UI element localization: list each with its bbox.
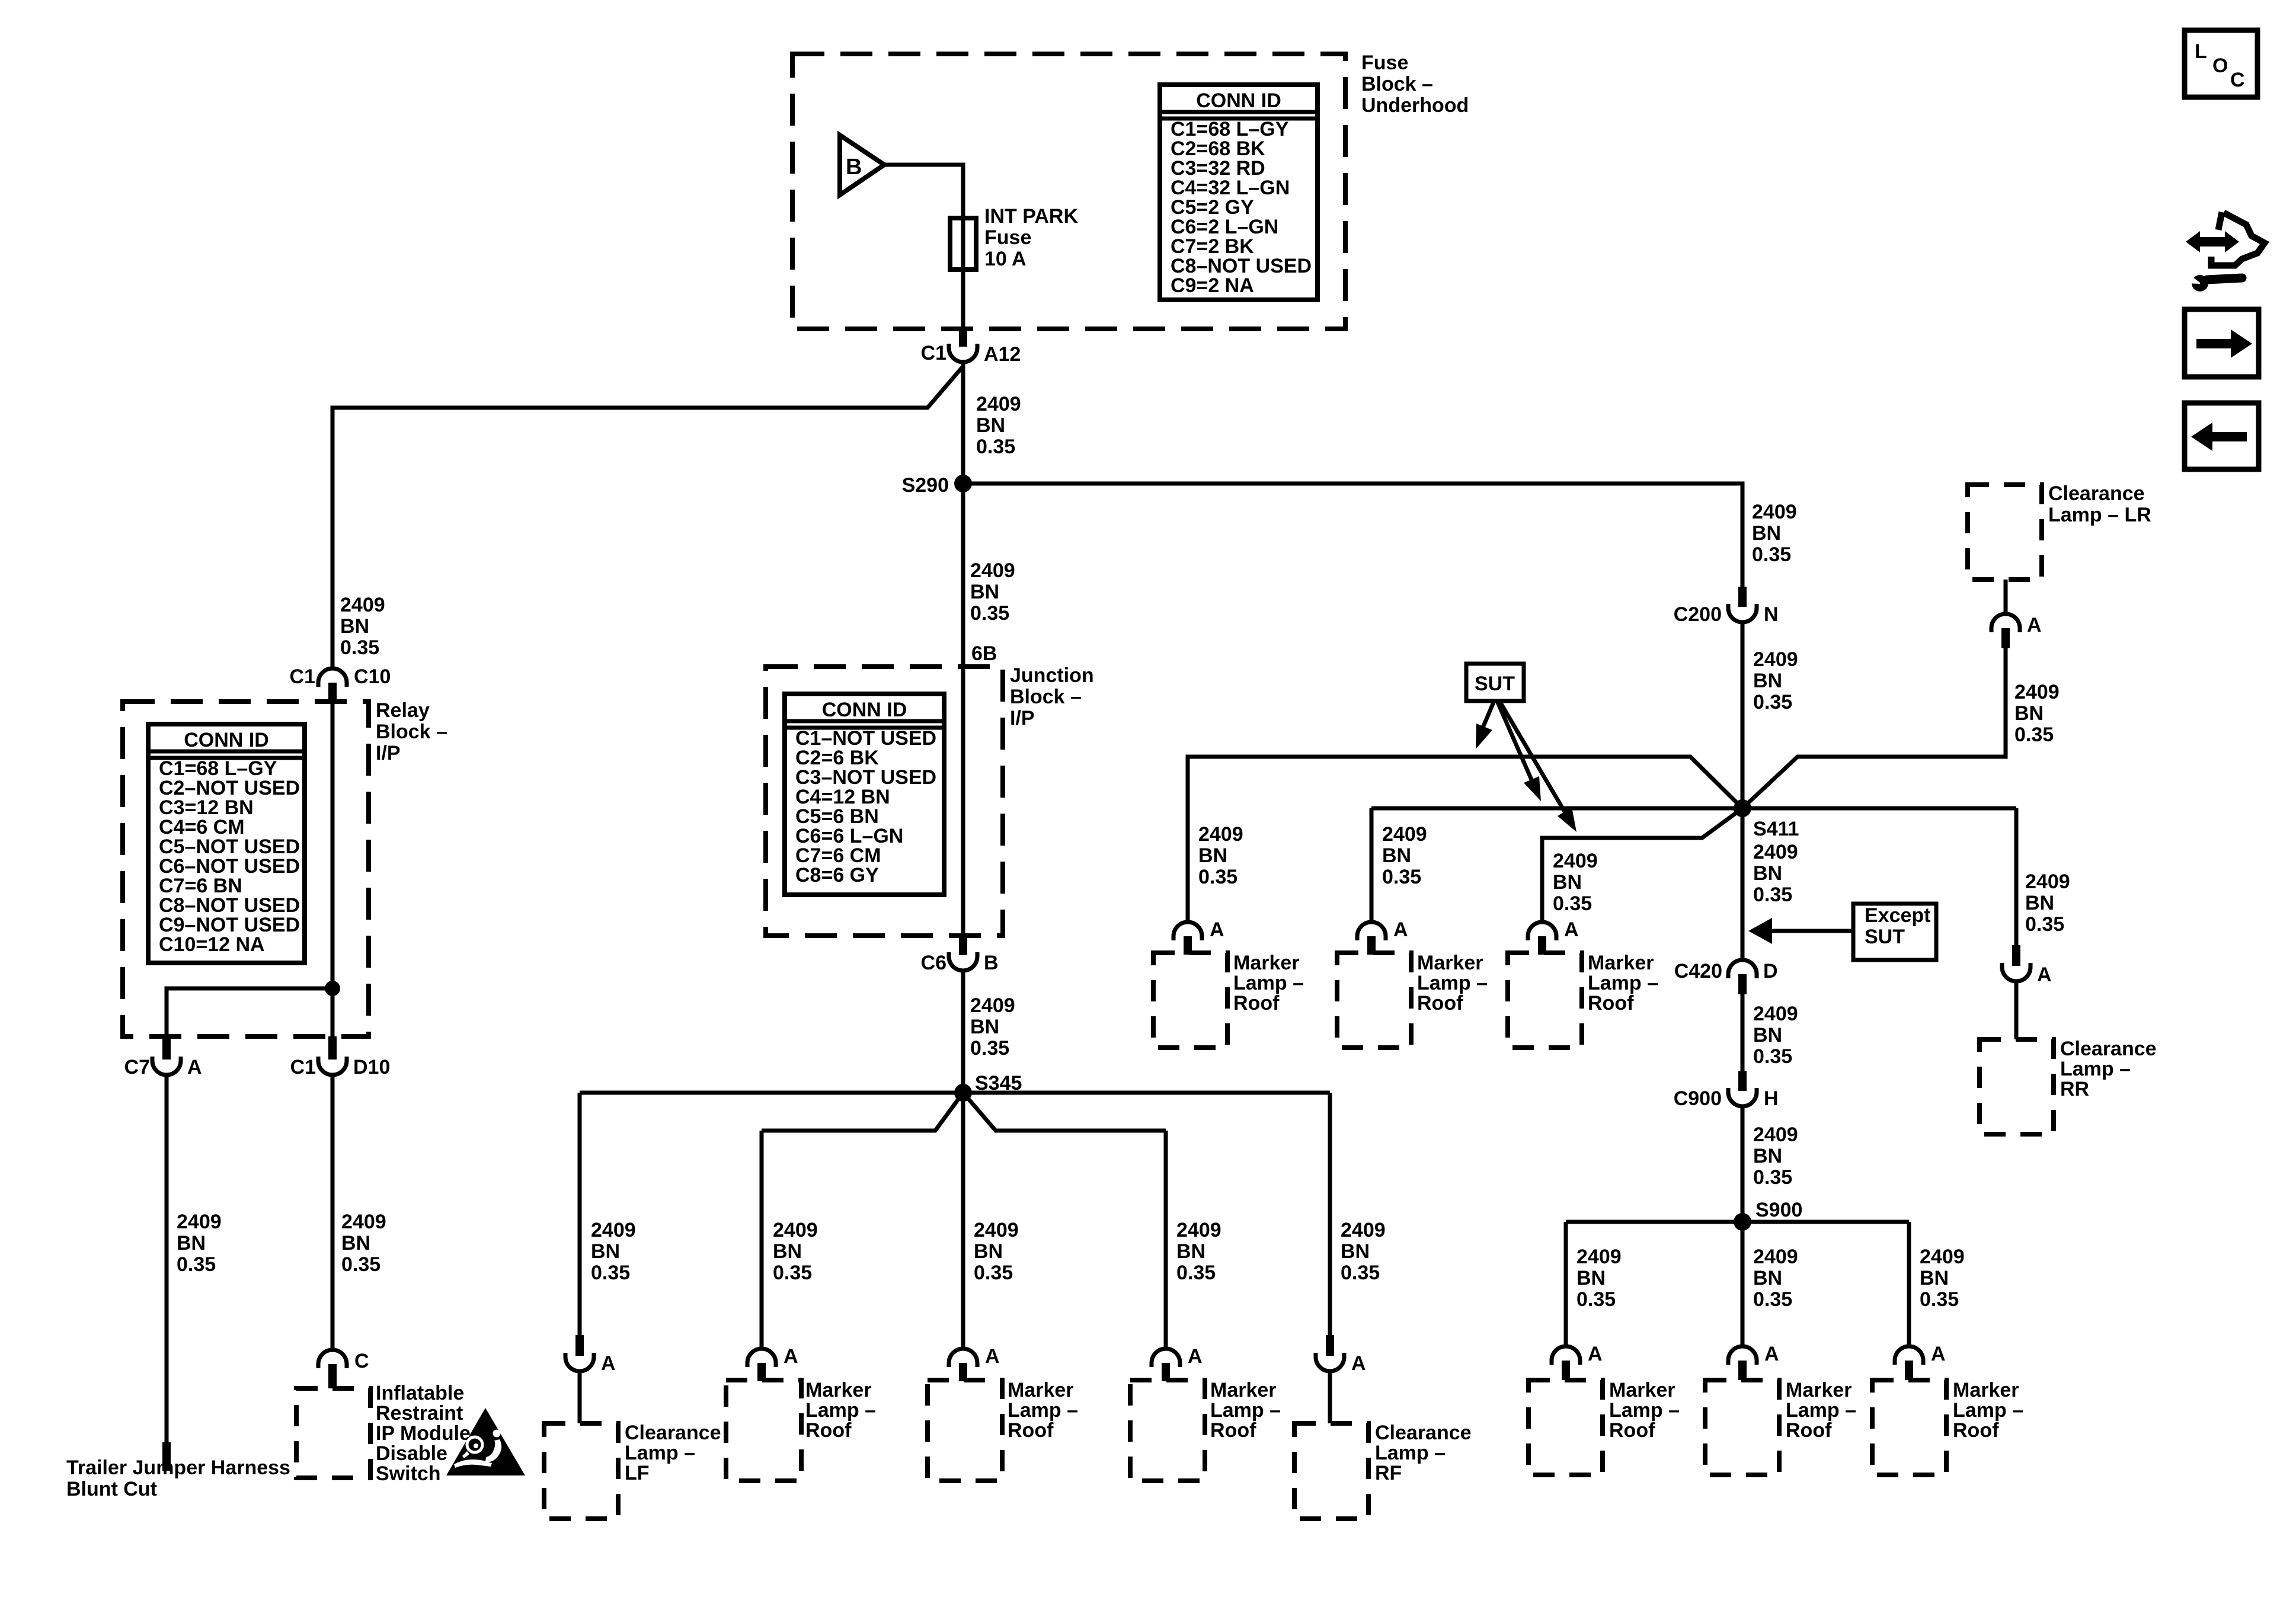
svg-text:BN: BN: [1198, 844, 1227, 867]
svg-text:0.35: 0.35: [2014, 724, 2054, 746]
splice S290: [954, 475, 972, 492]
svg-text:D10: D10: [353, 1056, 390, 1078]
svg-text:C: C: [2230, 69, 2245, 91]
svg-text:BN: BN: [1753, 1267, 1782, 1289]
connector C6 B cup: [949, 952, 977, 971]
svg-text:S900: S900: [1755, 1199, 1802, 1221]
svg-text:Junction: Junction: [1010, 664, 1094, 687]
svg-text:C1: C1: [290, 1056, 316, 1078]
svg-text:0.35: 0.35: [2025, 913, 2064, 936]
svg-text:C8=6 GY: C8=6 GY: [795, 864, 879, 886]
svg-text:B: B: [846, 155, 862, 180]
except SUT arrow: [1771, 929, 1853, 933]
svg-text:A: A: [1188, 1345, 1203, 1368]
svg-text:0.35: 0.35: [773, 1262, 812, 1284]
svg-text:Trailer Jumper Harness: Trailer Jumper Harness: [66, 1457, 290, 1479]
svg-text:0.35: 0.35: [1198, 866, 1237, 888]
wire to marker lamp roof 1: [760, 1131, 764, 1349]
marker lamp roof 3 (dashed box): [1130, 1380, 1205, 1481]
connector C200 N cup: [1728, 604, 1757, 622]
svg-text:0.35: 0.35: [974, 1262, 1013, 1284]
svg-text:BN: BN: [1753, 670, 1782, 692]
svg-text:BN: BN: [591, 1240, 620, 1263]
svg-text:2409: 2409: [177, 1211, 222, 1233]
svg-text:BN: BN: [1752, 522, 1781, 545]
svg-text:2409: 2409: [340, 594, 385, 616]
S411 branch to clearance RR: [2014, 808, 2019, 946]
svg-text:Marker: Marker: [1609, 1379, 1675, 1401]
svg-text:2409: 2409: [2014, 681, 2060, 703]
marker lamp roof SUT 1 (dashed box): [1153, 953, 1227, 1048]
wire D10 to disable switch: [331, 1075, 335, 1350]
connector A stub (LF): [575, 1335, 584, 1356]
CONN ID table (fuse block): [1160, 85, 1318, 300]
svg-text:BN: BN: [1920, 1267, 1949, 1289]
wire branch to C7 inside relay block: [167, 988, 332, 1036]
splice S411: [1734, 799, 1751, 817]
svg-text:0.35: 0.35: [1753, 691, 1792, 713]
S411 lower-left branch wire: [1542, 808, 1742, 922]
wire to marker lamp roof 3: [1164, 1131, 1168, 1349]
svg-text:Marker: Marker: [1417, 952, 1483, 974]
svg-text:2409: 2409: [1752, 501, 1797, 523]
connector C stub: [328, 1364, 337, 1388]
svg-text:0.35: 0.35: [1753, 1166, 1792, 1189]
svg-text:Block –: Block –: [1361, 73, 1433, 95]
svg-text:C10=12 NA: C10=12 NA: [159, 933, 265, 956]
wire inside relay block: [331, 704, 335, 1036]
svg-text:RR: RR: [2060, 1078, 2089, 1100]
svg-text:BN: BN: [341, 1232, 370, 1254]
svg-text:I/P: I/P: [1010, 707, 1035, 729]
connector C900 H stub: [1738, 1071, 1747, 1091]
svg-text:Roof: Roof: [1588, 992, 1634, 1014]
connector C7 A cup: [152, 1057, 181, 1075]
connector C1 C10 dome: [318, 668, 347, 687]
svg-text:2409: 2409: [1341, 1219, 1386, 1241]
connector A cup (RR): [2002, 963, 2030, 981]
svg-text:Block –: Block –: [376, 721, 447, 743]
svg-text:C10: C10: [354, 665, 391, 688]
connector A stub (marker 1): [757, 1363, 766, 1381]
svg-text:A: A: [2037, 964, 2052, 986]
svg-text:IP Module: IP Module: [376, 1422, 471, 1445]
S411 branch down to marker lamp 5: [1370, 808, 1374, 922]
svg-text:BN: BN: [1176, 1240, 1205, 1263]
svg-text:Relay: Relay: [376, 699, 430, 722]
svg-text:Fuse: Fuse: [1361, 52, 1408, 74]
svg-text:Roof: Roof: [805, 1419, 852, 1442]
svg-text:BN: BN: [340, 615, 369, 638]
svg-text:Fuse: Fuse: [984, 226, 1031, 249]
svg-text:Block –: Block –: [1010, 686, 1082, 708]
svg-text:Marker: Marker: [1786, 1379, 1852, 1401]
wire to marker lamp roof S900-3: [1907, 1222, 1911, 1346]
svg-text:A: A: [601, 1352, 616, 1375]
connector A dome (marker 1): [747, 1349, 776, 1367]
svg-text:L: L: [2195, 40, 2207, 63]
svg-text:C: C: [354, 1350, 369, 1372]
svg-text:C1: C1: [290, 665, 315, 688]
SIR caution triangle: [446, 1408, 525, 1475]
svg-text:0.35: 0.35: [1920, 1288, 1959, 1311]
svg-text:0.35: 0.35: [1753, 1045, 1792, 1068]
connector A dome (S900 marker 3): [1895, 1346, 1923, 1365]
SUT arrow 1: [1480, 701, 1494, 733]
svg-text:Roof: Roof: [1233, 992, 1280, 1014]
connector A stub (RR): [2012, 945, 2020, 966]
svg-text:Lamp –: Lamp –: [2060, 1058, 2131, 1080]
clearance lamp LR (dashed box): [1968, 485, 2042, 580]
svg-text:BN: BN: [773, 1240, 802, 1263]
S345 right fan wire: [963, 1093, 1166, 1131]
svg-text:A: A: [187, 1056, 202, 1078]
wire to marker lamp roof S900-2: [1741, 1222, 1745, 1346]
marker lamp roof 1 (dashed box): [726, 1380, 801, 1481]
wire to clearance lamp RF: [1328, 1093, 1332, 1335]
svg-text:2409: 2409: [1753, 1003, 1798, 1025]
svg-text:0.35: 0.35: [970, 602, 1009, 625]
svg-text:BN: BN: [970, 1016, 999, 1038]
svg-text:S411: S411: [1753, 818, 1799, 840]
wire below C1 A12 to S290: [961, 362, 965, 484]
svg-text:Marker: Marker: [1008, 1379, 1074, 1401]
connector C dome: [318, 1350, 347, 1368]
fuse block - underhood (dashed box): [792, 54, 1345, 329]
svg-text:BN: BN: [177, 1232, 206, 1254]
svg-text:0.35: 0.35: [1753, 1288, 1792, 1311]
blunt cut end stub: [162, 1442, 171, 1471]
svg-text:BN: BN: [2025, 892, 2054, 914]
connector C1 D10 cup: [318, 1057, 347, 1075]
svg-text:A12: A12: [984, 343, 1021, 366]
svg-text:A: A: [1351, 1352, 1366, 1375]
S345 main horizontal: [580, 1091, 1330, 1095]
svg-text:2409: 2409: [974, 1219, 1019, 1241]
svg-text:0.35: 0.35: [1752, 543, 1791, 566]
svg-text:Lamp –: Lamp –: [1609, 1399, 1680, 1422]
svg-text:Marker: Marker: [1233, 952, 1300, 974]
connector A stub (RF): [1326, 1335, 1334, 1356]
svg-text:Switch: Switch: [376, 1462, 441, 1485]
svg-text:A: A: [1764, 1343, 1779, 1365]
svg-text:2409: 2409: [773, 1219, 818, 1241]
connector A stub (S900 marker 3): [1905, 1361, 1913, 1380]
svg-text:A: A: [985, 1345, 1000, 1368]
marker lamp roof S900-1 (dashed box): [1528, 1380, 1603, 1475]
svg-text:2409: 2409: [1198, 823, 1243, 846]
svg-text:C7: C7: [124, 1056, 150, 1078]
svg-text:SUT: SUT: [1865, 926, 1905, 948]
S345 left fan wire: [762, 1093, 963, 1131]
junction node inside relay block: [325, 981, 340, 996]
svg-text:O: O: [2212, 55, 2228, 77]
wire S290 down to junction block: [961, 484, 965, 667]
svg-text:BN: BN: [1553, 871, 1582, 894]
svg-text:0.35: 0.35: [1176, 1262, 1216, 1284]
svg-text:Marker: Marker: [1953, 1379, 2019, 1401]
svg-text:BN: BN: [970, 581, 999, 603]
SUT arrow 3: [1499, 701, 1568, 818]
svg-text:2409: 2409: [1382, 823, 1427, 846]
connector A dome (SUT marker 1): [1173, 922, 1202, 940]
connector C1 A12 terminal stub: [959, 327, 967, 347]
svg-text:Lamp –: Lamp –: [1008, 1399, 1078, 1422]
connector A dome (SUT marker 2): [1357, 922, 1386, 940]
svg-text:2409: 2409: [591, 1219, 636, 1241]
svg-text:0.35: 0.35: [1753, 884, 1792, 906]
wire to marker lamp roof 2: [961, 1093, 965, 1349]
connector A dome (S900 marker 2): [1728, 1346, 1757, 1365]
svg-text:SUT: SUT: [1475, 673, 1515, 695]
svg-text:B: B: [984, 952, 999, 974]
S900 horizontal wire: [1566, 1220, 1909, 1224]
svg-text:Lamp –: Lamp –: [1375, 1442, 1446, 1464]
svg-text:10 A: 10 A: [984, 248, 1027, 270]
connector C420 D dome: [1728, 960, 1757, 978]
svg-text:Roof: Roof: [1786, 1419, 1832, 1442]
except SUT box: [1853, 904, 1936, 960]
SUT variant box: [1466, 664, 1524, 701]
connector A cup (LF): [565, 1353, 594, 1371]
svg-text:CONN ID: CONN ID: [1196, 89, 1281, 112]
svg-text:C9=2 NA: C9=2 NA: [1171, 274, 1254, 297]
svg-text:N: N: [1764, 603, 1779, 626]
connector A stub (marker 3): [1162, 1363, 1170, 1381]
CONN ID table (relay block): [148, 724, 305, 963]
svg-text:A: A: [1564, 918, 1579, 941]
svg-text:2409: 2409: [1576, 1246, 1622, 1268]
wire LR connector to S411 branch: [2004, 648, 2008, 757]
svg-text:A: A: [1931, 1343, 1946, 1365]
wire C200 to S411: [1741, 622, 1745, 808]
svg-text:2409: 2409: [976, 393, 1021, 415]
svg-text:2409: 2409: [970, 994, 1015, 1017]
connector C200 N stub: [1738, 587, 1747, 607]
connector C420 D stub: [1738, 974, 1747, 994]
svg-text:BN: BN: [1753, 862, 1782, 885]
clearance lamp RR (dashed box): [1980, 1039, 2054, 1134]
svg-text:A: A: [1210, 918, 1224, 941]
connector A stub (SUT marker 2): [1367, 936, 1376, 955]
connector A dome (LR): [1991, 614, 2020, 632]
svg-text:Blunt Cut: Blunt Cut: [66, 1478, 157, 1500]
connector C7 A stub: [162, 1036, 171, 1060]
svg-text:0.35: 0.35: [1553, 892, 1592, 915]
clearance lamp RF (dashed box): [1294, 1423, 1368, 1519]
svg-text:0.35: 0.35: [1576, 1288, 1616, 1311]
svg-text:C6: C6: [921, 952, 946, 974]
svg-text:BN: BN: [1753, 1024, 1782, 1046]
svg-text:C200: C200: [1674, 603, 1722, 626]
svg-text:2409: 2409: [1176, 1219, 1221, 1241]
svg-text:0.35: 0.35: [1341, 1262, 1380, 1284]
svg-text:Roof: Roof: [1609, 1419, 1655, 1442]
forward-arrow navigation box: [2185, 309, 2259, 377]
wire from triangle B to fuse: [884, 165, 963, 218]
marker lamp roof SUT 3 (dashed box): [1508, 953, 1582, 1048]
svg-text:Clearance: Clearance: [2048, 482, 2145, 505]
connector A stub (S900 marker 1): [1562, 1361, 1570, 1380]
marker lamp roof 2 (dashed box): [928, 1380, 1002, 1481]
svg-text:C1: C1: [921, 342, 946, 364]
wire branch to relay block (diagonal + long horizontal): [332, 366, 964, 668]
svg-text:6B: 6B: [971, 642, 997, 665]
connector C900 H cup: [1728, 1088, 1757, 1106]
connector A dome (SUT marker 3): [1528, 922, 1556, 940]
fuse INT PARK 10A: [961, 218, 965, 270]
svg-text:Clearance: Clearance: [625, 1422, 721, 1444]
svg-text:Lamp – LR: Lamp – LR: [2048, 504, 2151, 526]
svg-text:Clearance: Clearance: [2060, 1038, 2157, 1060]
connector C1 C10 stub: [328, 683, 337, 704]
svg-text:2409: 2409: [1753, 841, 1798, 863]
connector A stub (SUT marker 3): [1538, 936, 1546, 955]
svg-text:Lamp –: Lamp –: [1417, 972, 1488, 994]
connector C1 A12 cup: [949, 344, 977, 362]
connector A dome (S900 marker 1): [1552, 1346, 1580, 1365]
svg-text:Underhood: Underhood: [1361, 94, 1469, 117]
wire cup to RF lamp: [1328, 1371, 1332, 1423]
svg-text:2409: 2409: [1753, 1246, 1798, 1268]
svg-text:Lamp –: Lamp –: [1233, 972, 1304, 994]
connector C1 D10 stub: [328, 1036, 337, 1060]
svg-text:Disable: Disable: [376, 1442, 447, 1465]
connector A cup (RF): [1316, 1353, 1344, 1371]
svg-text:BN: BN: [1576, 1267, 1606, 1289]
svg-text:C420: C420: [1674, 960, 1722, 982]
svg-text:Marker: Marker: [1588, 952, 1654, 974]
wire S411 down to C420: [1741, 808, 1745, 960]
service icon (vehicle outline with double arrow and wrench): [2186, 231, 2239, 252]
svg-text:2409: 2409: [1753, 648, 1798, 671]
svg-text:Roof: Roof: [1953, 1419, 1999, 1442]
svg-text:Except: Except: [1865, 904, 1931, 927]
svg-text:BN: BN: [1753, 1145, 1782, 1167]
svg-text:2409: 2409: [341, 1211, 386, 1233]
wire C900 to S900: [1741, 1106, 1745, 1222]
wire fuse to connector C1 A12: [961, 270, 965, 328]
svg-text:D: D: [1763, 960, 1778, 982]
svg-text:Lamp –: Lamp –: [1786, 1399, 1856, 1422]
connector A stub (LR): [2001, 628, 2010, 648]
svg-text:0.35: 0.35: [341, 1253, 380, 1276]
wire to clearance lamp LF: [578, 1093, 582, 1335]
svg-text:Lamp –: Lamp –: [625, 1442, 695, 1464]
marker lamp roof SUT 2 (dashed box): [1337, 953, 1411, 1048]
S411 upper-right branch wire: [1742, 648, 2006, 808]
svg-text:Clearance: Clearance: [1375, 1422, 1472, 1444]
wire cup to RR lamp: [2014, 981, 2019, 1039]
svg-text:H: H: [1764, 1087, 1779, 1110]
S411 horizontal wire: [1371, 806, 2016, 811]
svg-text:Marker: Marker: [805, 1379, 872, 1401]
S411 upper-left branch wire: [1188, 757, 1742, 922]
wire C420 to C900: [1741, 994, 1745, 1072]
svg-text:Lamp –: Lamp –: [1588, 972, 1658, 994]
svg-text:A: A: [2027, 614, 2042, 636]
svg-text:2409: 2409: [1553, 850, 1598, 872]
connector A stub (SUT marker 1): [1184, 936, 1192, 955]
svg-text:0.35: 0.35: [1382, 866, 1421, 888]
svg-text:LF: LF: [625, 1462, 650, 1484]
svg-text:BN: BN: [1341, 1240, 1370, 1263]
wire S290 to C200 (horizontal): [963, 484, 1742, 588]
svg-text:0.35: 0.35: [177, 1253, 216, 1276]
marker lamp roof S900-3 (dashed box): [1872, 1380, 1946, 1475]
svg-text:CONN ID: CONN ID: [822, 699, 907, 721]
connector C6 B stub: [959, 934, 967, 955]
svg-text:A: A: [784, 1345, 798, 1368]
back-arrow navigation box: [2185, 403, 2259, 469]
wire inside junction block: [961, 667, 965, 936]
connector A stub (S900 marker 2): [1738, 1361, 1747, 1380]
connector A dome (marker 3): [1152, 1349, 1180, 1367]
svg-text:Roof: Roof: [1008, 1419, 1054, 1442]
svg-text:CONN ID: CONN ID: [184, 729, 269, 751]
SUT arrow 2: [1497, 701, 1534, 786]
svg-text:2409: 2409: [2025, 870, 2070, 893]
svg-text:0.35: 0.35: [976, 436, 1015, 458]
svg-text:2409: 2409: [1753, 1124, 1798, 1146]
wire to marker lamp roof S900-1: [1564, 1222, 1568, 1346]
wire C7-A to blunt cut: [165, 1075, 169, 1442]
svg-text:BN: BN: [976, 414, 1005, 437]
svg-text:INT PARK: INT PARK: [984, 205, 1078, 228]
connector A stub (marker 2): [959, 1363, 967, 1381]
svg-text:Lamp –: Lamp –: [1953, 1399, 2023, 1422]
svg-text:RF: RF: [1375, 1462, 1402, 1484]
wire C6-B to S345: [961, 971, 965, 1093]
svg-text:2409: 2409: [1920, 1246, 1965, 1268]
wire LR lamp to connector: [2004, 580, 2008, 614]
svg-text:C900: C900: [1674, 1087, 1722, 1110]
svg-text:Lamp –: Lamp –: [1210, 1399, 1281, 1422]
svg-text:0.35: 0.35: [340, 636, 379, 659]
svg-text:S290: S290: [902, 474, 949, 497]
svg-text:I/P: I/P: [376, 742, 401, 764]
battery feed triangle B: [840, 135, 884, 195]
svg-text:BN: BN: [1382, 844, 1411, 867]
svg-text:Inflatable: Inflatable: [376, 1382, 464, 1404]
LOC legend box: [2185, 30, 2257, 97]
svg-text:Lamp –: Lamp –: [805, 1399, 876, 1422]
svg-text:A: A: [1393, 918, 1408, 941]
svg-text:0.35: 0.35: [591, 1262, 630, 1284]
clearance lamp LF (dashed box): [544, 1423, 618, 1519]
svg-text:Marker: Marker: [1210, 1379, 1277, 1401]
junction block - I/P (dashed box): [766, 667, 1003, 936]
svg-text:Roof: Roof: [1210, 1419, 1256, 1442]
connector A dome (marker 2): [949, 1349, 977, 1367]
CONN ID table (junction block): [785, 694, 944, 895]
svg-text:BN: BN: [974, 1240, 1003, 1263]
marker lamp roof S900-2 (dashed box): [1705, 1380, 1779, 1475]
svg-text:Roof: Roof: [1417, 992, 1463, 1014]
inflatable restraint IP module disable switch (dashed box): [296, 1388, 370, 1478]
svg-text:A: A: [1588, 1343, 1603, 1365]
svg-text:Restraint: Restraint: [376, 1402, 463, 1425]
relay block - I/P (dashed box): [123, 702, 369, 1036]
svg-text:2409: 2409: [970, 559, 1015, 582]
svg-text:0.35: 0.35: [970, 1037, 1009, 1060]
svg-text:BN: BN: [2014, 702, 2044, 725]
wire cup to LF lamp: [578, 1371, 582, 1423]
